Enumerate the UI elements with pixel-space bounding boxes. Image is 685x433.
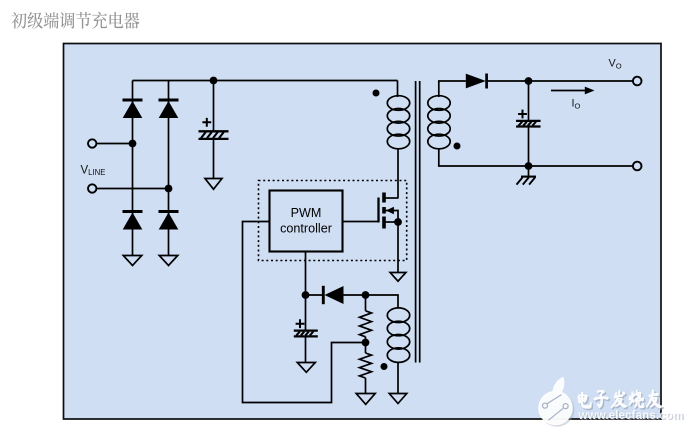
node dot vcc right [362, 291, 370, 299]
resistor R2 (divider lower) [360, 353, 372, 378]
node dot branch B input [165, 185, 173, 193]
node dot output bottom [525, 162, 533, 170]
transistor Q1 MOSFET gate bar [377, 198, 379, 223]
svg-text:www.elecfans.com: www.elecfans.com [578, 410, 684, 422]
chassis ground output [521, 176, 536, 178]
T1 secondary polarity dot [454, 143, 461, 150]
ground for R2 [356, 394, 375, 405]
capacitor C1 (bulk input) [199, 130, 229, 132]
Q1 drain stub [384, 197, 398, 199]
watermark text 电子发烧友 [579, 391, 663, 409]
wire bridge branch A [132, 81, 134, 256]
ground bridge A [123, 256, 142, 266]
ground for aux winding [389, 394, 407, 404]
wire diode to aux winding [344, 295, 399, 308]
wire bridge branch B [168, 81, 170, 256]
panel background [64, 44, 662, 420]
node dot top rail / C1 [210, 77, 218, 85]
wire primary bottom lead / drain riser [397, 148, 399, 199]
node dot source [394, 218, 402, 226]
output terminal Vo [633, 77, 642, 86]
T1 primary polarity dot [373, 90, 380, 97]
wire upper input lead [96, 143, 133, 145]
wire lower input lead [96, 188, 169, 190]
svg-text:PWM: PWM [291, 206, 322, 220]
wire primary top lead [397, 81, 399, 98]
svg-text:controller: controller [280, 222, 332, 236]
node dot branch A input [129, 140, 137, 148]
wire source fall [397, 222, 399, 273]
watermark leaf [552, 377, 564, 396]
input terminal lower [88, 184, 96, 192]
diode D6 (output, points right) [466, 74, 486, 89]
diode D1 (bridge upper-left) [123, 99, 143, 102]
T1 aux polarity dot [381, 363, 388, 370]
Q1 body arrow [386, 207, 394, 214]
wire gate lead [343, 221, 379, 223]
wire feedback loop [243, 222, 366, 403]
wire top rail [133, 80, 398, 82]
ground bridge B [159, 256, 178, 266]
diode D5 (vcc, points left) [322, 286, 325, 304]
watermark logo circle [540, 392, 575, 427]
Q1 body line [384, 211, 398, 223]
node dot output top [525, 77, 533, 85]
diode D2 (bridge upper-right) [159, 99, 179, 102]
Q1 source stub [384, 221, 398, 223]
capacitor C2 (vcc) [294, 329, 318, 331]
input terminal upper [88, 139, 96, 147]
wire vcc cap branch [305, 295, 307, 363]
output terminal return [633, 162, 642, 171]
node dot divider tap [362, 339, 370, 347]
ground for C1 [205, 179, 222, 190]
wire divider branch [365, 295, 367, 394]
wire output top rail [487, 80, 634, 82]
watermark circuit trace [547, 395, 563, 421]
node dot vcc left [302, 291, 310, 299]
current arrow Io [551, 90, 586, 92]
Q1 channel segments [382, 193, 386, 229]
title text 初级端调节充电器 [11, 12, 139, 29]
diode D3 (bridge lower-left) [123, 210, 143, 213]
ground for Q1 source [390, 273, 406, 282]
wire secondary top lead [439, 81, 466, 97]
transformer core [416, 81, 420, 363]
PWM dashed box [259, 181, 407, 261]
transformer T1 primary winding [387, 96, 409, 111]
wire vcc node to diode [306, 294, 323, 296]
diode D4 (bridge lower-right) [159, 210, 179, 213]
T1 auxiliary winding [387, 308, 409, 323]
wire aux bottom lead [397, 363, 399, 394]
capacitor C3 (output) [516, 120, 541, 122]
resistor R1 (divider upper) [360, 311, 372, 337]
wire bulk cap branch [213, 81, 215, 179]
wire output cap branch [528, 81, 530, 177]
wire vcc riser [305, 252, 307, 296]
T1 secondary winding [428, 96, 450, 111]
PWM controller box U1 [270, 191, 343, 252]
ground for C2 [297, 363, 315, 373]
wire secondary bottom lead / output bottom rail [439, 148, 633, 166]
